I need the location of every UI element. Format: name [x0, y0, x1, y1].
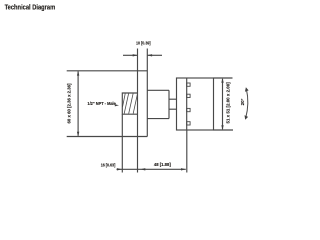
- wire: neck top: [147, 89, 169, 91]
- arrow: top dim right (left-pointing): [147, 54, 152, 56]
- wire: plate right face vertical: [146, 49, 148, 137]
- wire: right dimension line 51x51: [222, 79, 224, 130]
- wire: top dim left tail: [123, 54, 138, 56]
- wire: body seam vertical: [186, 78, 188, 130]
- wire: body top extension to right: [214, 77, 233, 79]
- arrow: arc bottom: [245, 115, 249, 120]
- capacitor C0: threaded nipple outline: [122, 93, 137, 114]
- wire: coupling top: [169, 98, 177, 100]
- arrow: 48 dim left (left-pointing): [141, 168, 146, 170]
- svg-text:10 [0.39]: 10 [0.39]: [136, 40, 151, 45]
- svg-text:1/2" NPT - Male: 1/2" NPT - Male: [87, 101, 116, 106]
- svg-text:Technical Diagram: Technical Diagram: [5, 3, 56, 12]
- svg-text:20°: 20°: [240, 98, 245, 105]
- svg-text:16 [0.63]: 16 [0.63]: [101, 162, 116, 167]
- arrow: 48 dim right (right-pointing): [181, 168, 186, 170]
- svg-text:51 x 51 [2.00 x 2.00]: 51 x 51 [2.00 x 2.00]: [226, 82, 231, 124]
- wire: neck right edge: [168, 90, 170, 118]
- arrow: 51 dim bottom (down): [221, 125, 223, 130]
- wire: body bottom extension to right: [214, 129, 234, 131]
- wire: rotation arc 20deg: [246, 89, 248, 118]
- node tab3: [187, 108, 190, 111]
- wire: top dim right tail: [147, 54, 162, 56]
- arrow: left dim bottom (down): [77, 132, 79, 137]
- arrow: arc top: [245, 87, 249, 92]
- wire: left dimension line: [77, 72, 79, 136]
- wire: nipple left extension down: [121, 114, 123, 172]
- wire: plate left face vertical: [137, 49, 139, 173]
- wire: extension from body bottom down: [186, 130, 188, 173]
- node tab2: [187, 94, 190, 97]
- svg-text:48 [1.88]: 48 [1.88]: [154, 162, 172, 167]
- arrow: left dim top (up): [77, 71, 79, 76]
- wire: bottom dimension line: [117, 168, 186, 170]
- arrow: leader to NPT thread: [115, 104, 119, 106]
- arrow: 16 dim left (right-pointing): [117, 168, 122, 170]
- wire: top extension line / plate top edge: [67, 70, 148, 72]
- svg-text:60 x 60 [2.36 x 2.36]: 60 x 60 [2.36 x 2.36]: [66, 83, 71, 124]
- arrow: 51 dim top (up): [221, 78, 223, 83]
- arrow: top dim left (right-pointing): [133, 54, 138, 56]
- node tab4: [187, 122, 190, 125]
- wire: coupling bottom: [169, 108, 177, 110]
- node body: main housing rectangle: [177, 78, 214, 130]
- wire: bottom extension line / plate bottom edge: [67, 136, 148, 138]
- node tab1: [187, 83, 190, 86]
- wire: hatch lines: [123, 94, 138, 114]
- wire: neck bottom: [147, 118, 169, 120]
